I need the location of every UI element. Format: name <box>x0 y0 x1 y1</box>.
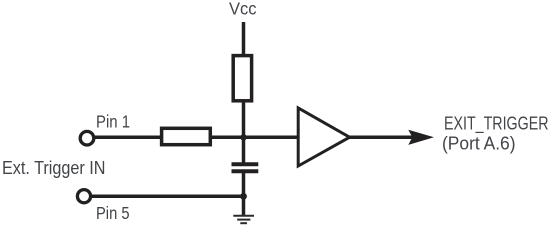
svg-text:Vcc: Vcc <box>229 0 257 18</box>
terminal Pin 1 (open circle) <box>80 131 94 145</box>
ground symbol <box>233 216 254 223</box>
wire Pin 5 to ground node <box>91 195 244 199</box>
wire Vcc to resistor R1 <box>242 22 246 58</box>
label EXIT_TRIGGER <box>444 114 549 135</box>
svg-text:Pin 1: Pin 1 <box>96 112 130 132</box>
wire resistor R2 to buffer input through node A <box>208 136 299 140</box>
wire capacitor C1 to ground <box>242 171 246 216</box>
svg-text:(Port A.6): (Port A.6) <box>442 134 516 154</box>
node A junction dot <box>240 134 246 140</box>
label Pin 5 <box>96 203 130 223</box>
capacitor C1 bottom plate <box>232 169 259 173</box>
resistor R1 (pull-up, vertical) <box>233 56 251 101</box>
label Pin 1 <box>96 112 130 132</box>
svg-text:Ext. Trigger IN: Ext. Trigger IN <box>2 158 106 178</box>
op-amp buffer U1 (triangle) <box>298 108 349 166</box>
svg-text:EXIT_TRIGGER: EXIT_TRIGGER <box>444 114 549 135</box>
label Ext. Trigger IN <box>2 158 106 178</box>
svg-text:Pin 5: Pin 5 <box>96 203 130 223</box>
junction dot Pin 5 wire to ground wire <box>240 193 247 200</box>
arrowhead to EXIT_TRIGGER <box>408 130 434 145</box>
capacitor C1 top plate <box>232 162 259 166</box>
resistor R2 (series, horizontal) <box>162 128 211 144</box>
label (Port A.6) <box>442 134 516 154</box>
net Vcc label <box>229 0 257 18</box>
wire resistor R1 bottom to node A <box>242 101 246 164</box>
terminal Pin 5 (open circle) <box>77 190 90 203</box>
wire Pin 1 to resistor R2 <box>94 136 165 140</box>
wire buffer output <box>350 136 426 140</box>
